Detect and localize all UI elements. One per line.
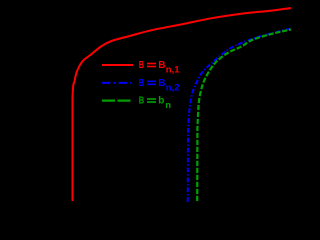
legend green label B = b_n: [139, 96, 171, 112]
svg-text:B: B: [158, 78, 165, 89]
svg-text:b: b: [158, 96, 164, 107]
svg-text:B: B: [158, 60, 165, 71]
svg-text:B: B: [139, 96, 144, 107]
svg-text:n,1: n,1: [166, 65, 180, 76]
svg-text:B: B: [139, 78, 144, 89]
legend red sample line: [102, 64, 133, 66]
svg-text:n,2: n,2: [166, 83, 180, 94]
legend blue sample line: [102, 82, 131, 84]
red curve B = B_n,1: [73, 8, 292, 201]
svg-text:B: B: [139, 60, 144, 71]
legend red label B = B_n,1: [139, 60, 180, 76]
svg-text:n: n: [165, 100, 171, 111]
green dashed curve B = b_n: [197, 30, 291, 202]
legend green sample line: [102, 99, 132, 101]
blue dash-dot curve B = B_n,2: [188, 29, 291, 203]
legend blue label B = B_n,2: [139, 78, 180, 94]
